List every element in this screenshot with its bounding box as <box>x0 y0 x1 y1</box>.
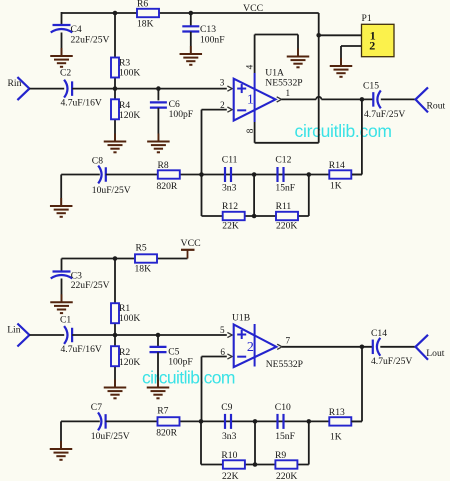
svg-text:C12: C12 <box>275 155 291 166</box>
svg-text:100pF: 100pF <box>168 357 193 368</box>
svg-text:Lin: Lin <box>7 325 21 336</box>
svg-text:100K: 100K <box>119 68 140 79</box>
svg-text:4.7uF/25V: 4.7uF/25V <box>371 356 412 367</box>
svg-text:10uF/25V: 10uF/25V <box>91 431 130 442</box>
svg-text:6: 6 <box>220 347 225 357</box>
svg-text:circuitlib.com: circuitlib.com <box>295 121 393 141</box>
svg-text:120K: 120K <box>119 110 140 121</box>
svg-text:15nF: 15nF <box>275 431 295 442</box>
svg-text:VCC: VCC <box>243 3 263 14</box>
svg-text:C11: C11 <box>222 155 238 166</box>
svg-text:R8: R8 <box>158 160 169 171</box>
svg-text:18K: 18K <box>135 264 152 275</box>
svg-text:820R: 820R <box>157 181 178 192</box>
svg-text:U1B: U1B <box>232 312 250 323</box>
svg-text:C2: C2 <box>60 68 71 79</box>
svg-text:VCC: VCC <box>181 238 201 249</box>
svg-text:5: 5 <box>220 325 225 335</box>
svg-text:3: 3 <box>220 78 225 88</box>
svg-text:C13: C13 <box>200 24 216 35</box>
svg-text:C8: C8 <box>92 156 103 167</box>
svg-text:3n3: 3n3 <box>222 431 237 442</box>
svg-text:R5: R5 <box>136 243 147 254</box>
svg-text:C4: C4 <box>71 24 82 35</box>
svg-text:R12: R12 <box>222 201 238 212</box>
svg-text:R6: R6 <box>137 0 148 10</box>
svg-text:R14: R14 <box>329 160 345 171</box>
svg-text:1: 1 <box>247 93 254 108</box>
svg-text:C14: C14 <box>371 328 387 339</box>
svg-text:R13: R13 <box>329 407 345 418</box>
svg-text:R9: R9 <box>275 450 286 461</box>
svg-text:10uF/25V: 10uF/25V <box>92 185 131 196</box>
svg-text:100pF: 100pF <box>169 109 194 120</box>
svg-text:100nF: 100nF <box>200 35 225 46</box>
svg-text:P1: P1 <box>362 13 372 24</box>
svg-text:220K: 220K <box>276 471 297 481</box>
svg-text:820R: 820R <box>156 428 177 439</box>
svg-text:22K: 22K <box>222 471 239 481</box>
svg-text:8: 8 <box>245 128 255 133</box>
svg-text:C15: C15 <box>363 81 379 92</box>
svg-text:circuitlib.com: circuitlib.com <box>142 368 236 388</box>
svg-text:R11: R11 <box>276 201 292 212</box>
svg-text:2: 2 <box>247 340 254 355</box>
svg-text:4: 4 <box>245 64 255 69</box>
svg-text:18K: 18K <box>137 19 154 30</box>
svg-text:15nF: 15nF <box>275 183 295 194</box>
svg-text:22uF/25V: 22uF/25V <box>71 280 110 291</box>
svg-text:2: 2 <box>220 100 225 110</box>
svg-text:1: 1 <box>286 88 291 98</box>
svg-text:120K: 120K <box>119 357 140 368</box>
svg-text:C1: C1 <box>60 314 71 325</box>
svg-text:22K: 22K <box>222 220 239 231</box>
svg-text:Rout: Rout <box>427 100 446 111</box>
svg-text:NE5532P: NE5532P <box>266 359 303 370</box>
svg-text:2: 2 <box>369 39 375 53</box>
svg-text:3n3: 3n3 <box>222 183 237 194</box>
svg-text:C9: C9 <box>221 402 232 413</box>
svg-text:C7: C7 <box>91 402 102 413</box>
svg-text:4.7uF/16V: 4.7uF/16V <box>61 97 102 108</box>
svg-text:R10: R10 <box>221 450 237 461</box>
svg-text:7: 7 <box>286 336 291 346</box>
svg-text:C10: C10 <box>275 402 291 413</box>
svg-text:1K: 1K <box>330 181 342 192</box>
svg-text:R7: R7 <box>157 406 168 417</box>
svg-text:4.7uF/16V: 4.7uF/16V <box>61 344 102 355</box>
svg-text:220K: 220K <box>276 220 297 231</box>
svg-text:22uF/25V: 22uF/25V <box>71 35 110 46</box>
svg-text:Lout: Lout <box>426 348 444 359</box>
svg-text:100K: 100K <box>119 313 140 324</box>
svg-text:NE5532P: NE5532P <box>265 77 302 88</box>
svg-text:4.7uF/25V: 4.7uF/25V <box>364 109 405 120</box>
svg-text:1K: 1K <box>330 432 342 443</box>
